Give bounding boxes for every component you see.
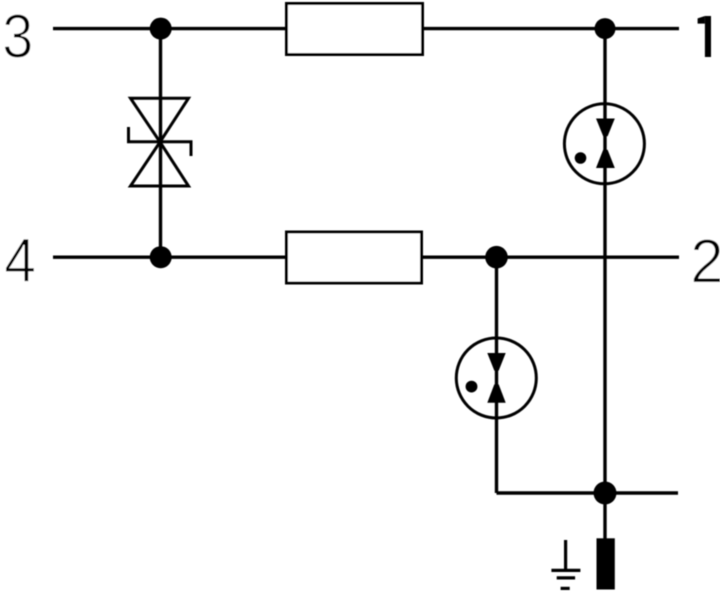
wire: terminal 4 horizontal rail	[53, 256, 285, 259]
gas discharge tube F2: envelope circle	[456, 338, 536, 418]
wire: rail 3 to terminal 1	[424, 27, 679, 30]
wire: left vertical branch (rail 3 to rail 4 through TVS)	[159, 29, 162, 258]
wire: right vertical branch (rail 3 junction down through GDT F1 to bottom node)	[603, 29, 606, 493]
junction dot: rail 4 / left branch	[150, 246, 172, 268]
junction dot: rail 3 / right branch	[595, 18, 616, 39]
junction dot: bottom node	[594, 482, 617, 505]
ground symbol: stem	[564, 540, 567, 570]
gas discharge tube F2: top arrow	[487, 353, 505, 371]
gas discharge tube F1: envelope circle	[564, 104, 644, 184]
gas discharge tube F1: gas dot	[575, 152, 587, 164]
wire: rail 4 to terminal 2	[423, 256, 679, 259]
gas discharge tube F2: bottom arrow	[487, 384, 505, 402]
gas discharge tube F2: gas dot	[466, 381, 478, 393]
TVS suppressor diode D1: top triangle	[131, 98, 189, 142]
ground symbol: bar 1	[551, 569, 580, 572]
junction dot: rail 4 / middle branch	[485, 246, 508, 269]
svg-text:4: 4	[4, 226, 36, 296]
TVS suppressor diode D1: bottom triangle	[131, 142, 189, 186]
junction dot: rail 3 / left branch	[150, 18, 172, 40]
TVS suppressor diode D1: Z bar	[129, 127, 192, 156]
gas discharge tube F1: top arrow	[596, 119, 615, 137]
resistor R2 (bottom)	[287, 232, 422, 283]
terminal label 1	[705, 16, 711, 57]
wire: terminal 3 horizontal rail	[53, 27, 285, 30]
wire: middle vertical branch (rail 4 junction down through GDT F2)	[495, 257, 498, 493]
ground symbol: bar 3	[561, 587, 570, 590]
ground symbol: bar 2	[557, 576, 575, 579]
resistor R1 (top)	[287, 4, 423, 55]
svg-text:2: 2	[690, 227, 720, 297]
earth electrode (filled bar)	[597, 538, 615, 589]
svg-text:3: 3	[2, 2, 33, 72]
wire: bottom horizontal rail (node to ground stub)	[497, 491, 679, 494]
wire: node to earth electrode	[603, 493, 606, 539]
gas discharge tube F1: bottom arrow	[596, 150, 615, 168]
